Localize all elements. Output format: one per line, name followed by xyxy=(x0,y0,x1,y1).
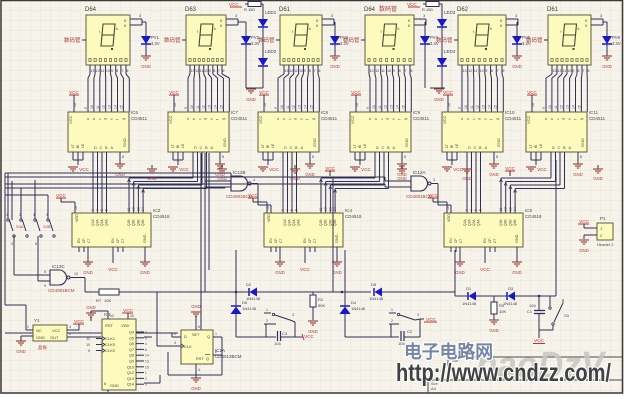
svg-text:D2: D2 xyxy=(246,282,252,287)
svg-text:BI: BI xyxy=(76,145,80,148)
svg-text:1N4148: 1N4148 xyxy=(503,301,518,306)
svg-text:6: 6 xyxy=(145,348,147,352)
svg-text:Q1A: Q1A xyxy=(463,219,467,226)
svg-text:IC13C: IC13C xyxy=(52,264,66,269)
svg-text:D: D xyxy=(184,334,187,339)
svg-text:GND: GND xyxy=(141,64,151,69)
svg-text:CD4081BCM: CD4081BCM xyxy=(406,194,433,199)
svg-text:f: f xyxy=(292,30,293,34)
svg-text:f: f xyxy=(381,30,382,34)
svg-text:Q3A: Q3A xyxy=(472,219,476,226)
svg-text:g: g xyxy=(403,118,407,120)
svg-text:4: 4 xyxy=(470,209,474,211)
svg-text:8: 8 xyxy=(404,155,406,159)
svg-text:VCC: VCC xyxy=(123,308,133,313)
svg-text:D62: D62 xyxy=(457,7,469,13)
svg-text:e: e xyxy=(484,118,488,120)
svg-text:LED2: LED2 xyxy=(265,49,277,54)
svg-text:13: 13 xyxy=(91,69,95,73)
svg-text:D: D xyxy=(94,146,97,150)
svg-text:3: 3 xyxy=(281,209,285,211)
svg-text:a: a xyxy=(460,118,464,120)
svg-text:R 150: R 150 xyxy=(422,7,433,12)
svg-text:9: 9 xyxy=(485,69,487,73)
svg-text:VCC: VCC xyxy=(52,328,61,333)
svg-text:10: 10 xyxy=(568,69,572,73)
svg-text:104: 104 xyxy=(274,341,281,346)
svg-text:VCC: VCC xyxy=(361,167,371,172)
svg-text:Q2B: Q2B xyxy=(324,219,328,226)
svg-text:C: C xyxy=(290,146,293,150)
svg-text:13: 13 xyxy=(390,105,394,109)
svg-text:VDD: VDD xyxy=(267,214,271,222)
svg-text:15: 15 xyxy=(401,105,405,109)
svg-text:b: b xyxy=(550,118,554,120)
svg-text:3: 3 xyxy=(292,313,294,317)
svg-text:2: 2 xyxy=(391,319,393,323)
svg-text:8: 8 xyxy=(491,69,493,73)
svg-text:VCC: VCC xyxy=(300,267,310,272)
svg-text:11: 11 xyxy=(294,69,298,73)
svg-text:BI: BI xyxy=(358,145,362,148)
svg-text:Q3A: Q3A xyxy=(292,219,296,226)
svg-text:VCC: VCC xyxy=(534,338,544,343)
svg-text:Q9: Q9 xyxy=(129,360,134,364)
svg-text:D: D xyxy=(194,146,197,150)
svg-text:3: 3 xyxy=(465,209,469,211)
svg-text:9: 9 xyxy=(274,107,278,109)
svg-text:7: 7 xyxy=(121,69,123,73)
svg-text:CD4518: CD4518 xyxy=(345,214,362,219)
svg-text:e: e xyxy=(300,118,304,120)
svg-text:CT: CT xyxy=(493,239,497,243)
svg-text:1: 1 xyxy=(27,325,29,329)
svg-text:Q1B: Q1B xyxy=(319,219,323,226)
svg-text:1N4148: 1N4148 xyxy=(462,301,477,306)
svg-text:8: 8 xyxy=(578,69,580,73)
svg-text:D3: D3 xyxy=(508,286,514,291)
svg-text:IC5: IC5 xyxy=(525,208,533,213)
svg-text:16: 16 xyxy=(263,103,267,107)
svg-text:IC3: IC3 xyxy=(153,208,161,213)
svg-text:c: c xyxy=(556,118,560,120)
svg-text:Q2A: Q2A xyxy=(468,219,472,226)
svg-text:GND: GND xyxy=(246,97,256,102)
svg-text:GND: GND xyxy=(191,386,201,391)
svg-text:12: 12 xyxy=(375,69,379,73)
svg-text:GND: GND xyxy=(573,172,583,177)
svg-text:VCC: VCC xyxy=(480,267,490,272)
svg-text:GND: GND xyxy=(489,172,499,177)
svg-text:4: 4 xyxy=(33,213,35,217)
svg-text:C: C xyxy=(558,146,561,150)
svg-text:3: 3 xyxy=(91,209,95,211)
svg-text:R 150: R 150 xyxy=(244,7,255,12)
svg-text:9: 9 xyxy=(44,284,46,288)
svg-text:5: 5 xyxy=(69,332,71,336)
svg-text:15: 15 xyxy=(219,105,223,109)
svg-text:14: 14 xyxy=(145,354,149,358)
svg-text:f: f xyxy=(116,119,120,120)
svg-text:6: 6 xyxy=(127,69,129,73)
svg-text:PV6: PV6 xyxy=(612,35,621,40)
svg-text:3.3V: 3.3V xyxy=(151,41,160,46)
svg-text:VCC: VCC xyxy=(259,90,269,95)
svg-text:8: 8 xyxy=(122,155,124,159)
svg-text:GND: GND xyxy=(593,176,603,181)
svg-text:CP: CP xyxy=(454,238,458,243)
svg-text:D1: D1 xyxy=(466,286,472,291)
svg-text:数码管: 数码管 xyxy=(379,5,397,13)
svg-text:10: 10 xyxy=(299,69,303,73)
svg-text:11: 11 xyxy=(127,207,131,211)
svg-text:D6: D6 xyxy=(242,300,248,305)
svg-text:16: 16 xyxy=(173,103,177,107)
svg-text:GND: GND xyxy=(330,64,340,69)
svg-text:Q14: Q14 xyxy=(127,383,134,387)
svg-text:Q7: Q7 xyxy=(129,348,134,352)
svg-text:GND: GND xyxy=(335,234,339,243)
svg-text:6: 6 xyxy=(198,325,200,329)
svg-text:GND: GND xyxy=(191,304,201,309)
svg-text:IC6: IC6 xyxy=(131,110,139,115)
svg-text:d: d xyxy=(478,118,482,120)
svg-text:LE: LE xyxy=(271,143,275,148)
svg-text:12: 12 xyxy=(289,69,293,73)
svg-text:VCC: VCC xyxy=(442,115,447,124)
svg-text:VCC: VCC xyxy=(426,317,436,322)
svg-text:数码管: 数码管 xyxy=(64,36,81,44)
svg-text:VCC: VCC xyxy=(579,219,589,224)
svg-text:11: 11 xyxy=(499,207,503,211)
svg-text:Q8: Q8 xyxy=(129,354,134,358)
svg-text:GND: GND xyxy=(512,270,522,275)
svg-text:D61: D61 xyxy=(279,7,291,13)
svg-text:Q: Q xyxy=(207,334,210,339)
svg-text:c: c xyxy=(380,118,384,120)
svg-text:9: 9 xyxy=(542,107,546,109)
svg-text:9: 9 xyxy=(573,69,575,73)
svg-text:c: c xyxy=(198,118,202,120)
svg-text:16: 16 xyxy=(447,103,451,107)
svg-text:1: 1 xyxy=(391,308,393,312)
svg-text:VCC: VCC xyxy=(258,115,263,124)
svg-text:D: D xyxy=(552,146,555,150)
svg-text:13: 13 xyxy=(298,105,302,109)
svg-text:OUT: OUT xyxy=(50,335,59,340)
svg-text:c: c xyxy=(472,118,476,120)
svg-text:9: 9 xyxy=(304,69,306,73)
svg-text:BI: BI xyxy=(176,145,180,148)
svg-text:13: 13 xyxy=(553,69,557,73)
svg-text:6: 6 xyxy=(223,69,225,73)
svg-text:e: e xyxy=(210,118,214,120)
svg-text:VCC: VCC xyxy=(68,115,73,124)
svg-text:D64: D64 xyxy=(364,7,376,13)
svg-text:3.3V: 3.3V xyxy=(612,41,621,46)
svg-text:5: 5 xyxy=(290,209,294,211)
svg-text:GND: GND xyxy=(455,270,465,275)
svg-text:9: 9 xyxy=(458,107,462,109)
svg-text:Q13: Q13 xyxy=(127,377,134,381)
svg-text:GND: GND xyxy=(580,138,585,147)
svg-text:8: 8 xyxy=(309,69,311,73)
svg-text:IC8: IC8 xyxy=(321,110,329,115)
svg-text:11: 11 xyxy=(96,105,100,109)
svg-text:5: 5 xyxy=(474,209,478,211)
svg-text:1N4148: 1N4148 xyxy=(351,306,366,311)
svg-text:b: b xyxy=(578,27,580,31)
svg-text:数码管: 数码管 xyxy=(164,36,181,44)
svg-text:10: 10 xyxy=(387,69,391,73)
svg-text:f: f xyxy=(561,30,562,34)
svg-text:Q4B: Q4B xyxy=(141,219,145,226)
svg-text:f: f xyxy=(398,119,402,120)
svg-text:晶振: 晶振 xyxy=(38,344,47,351)
svg-text:4: 4 xyxy=(96,209,100,211)
svg-text:14: 14 xyxy=(572,105,576,109)
svg-text:数码管: 数码管 xyxy=(526,36,543,44)
svg-text:13: 13 xyxy=(370,69,374,73)
svg-text:d: d xyxy=(204,118,208,120)
svg-text:12: 12 xyxy=(195,69,199,73)
svg-text:8: 8 xyxy=(213,69,215,73)
svg-text:g: g xyxy=(579,118,583,120)
svg-text:CD4511: CD4511 xyxy=(231,116,248,121)
svg-text:R7: R7 xyxy=(96,298,102,303)
svg-text:16: 16 xyxy=(130,314,134,318)
svg-text:12: 12 xyxy=(476,105,480,109)
svg-text:数码管: 数码管 xyxy=(436,36,453,44)
svg-text:10: 10 xyxy=(86,343,90,347)
svg-text:b: b xyxy=(214,27,216,31)
svg-text:a: a xyxy=(276,118,280,120)
svg-text:10: 10 xyxy=(106,69,110,73)
svg-text:VCC: VCC xyxy=(69,90,79,95)
svg-text:Q1B: Q1B xyxy=(127,219,131,226)
svg-text:11: 11 xyxy=(319,207,323,211)
svg-text:GND: GND xyxy=(332,270,342,275)
svg-text:10: 10 xyxy=(90,105,94,109)
svg-text:C: C xyxy=(382,146,385,150)
svg-text:14: 14 xyxy=(304,105,308,109)
svg-text:R5: R5 xyxy=(499,303,505,308)
svg-text:CD4081BCM: CD4081BCM xyxy=(226,194,253,199)
svg-text:6: 6 xyxy=(105,209,109,211)
svg-text:Q4A: Q4A xyxy=(297,219,301,226)
svg-text:10: 10 xyxy=(204,69,208,73)
svg-text:10: 10 xyxy=(548,105,552,109)
svg-text:50K: 50K xyxy=(318,303,325,308)
svg-text:RST: RST xyxy=(196,357,204,361)
svg-text:8: 8 xyxy=(399,69,401,73)
svg-text:9: 9 xyxy=(184,107,188,109)
svg-text:6: 6 xyxy=(295,209,299,211)
svg-text:数码管: 数码管 xyxy=(343,36,360,44)
svg-text:C: C xyxy=(474,146,477,150)
svg-text:b: b xyxy=(309,27,311,31)
svg-text:c: c xyxy=(98,118,102,120)
svg-text:GND: GND xyxy=(496,138,501,147)
svg-text:LED3: LED3 xyxy=(444,10,456,15)
svg-text:GND: GND xyxy=(305,172,315,177)
svg-text:9: 9 xyxy=(366,107,370,109)
svg-text:Q6: Q6 xyxy=(129,342,134,346)
svg-text:5: 5 xyxy=(174,332,176,336)
svg-text:15: 15 xyxy=(119,105,123,109)
svg-text:D63: D63 xyxy=(185,7,197,13)
svg-text:11: 11 xyxy=(381,69,385,73)
svg-text:GND: GND xyxy=(143,234,147,243)
svg-text:IC4: IC4 xyxy=(345,208,353,213)
svg-text:e: e xyxy=(392,118,396,120)
svg-text:7: 7 xyxy=(583,69,585,73)
svg-text:d: d xyxy=(104,118,108,120)
svg-text:10K: 10K xyxy=(499,309,506,314)
svg-text:12: 12 xyxy=(202,105,206,109)
svg-text:VDD: VDD xyxy=(447,214,451,222)
svg-text:Q2A: Q2A xyxy=(288,219,292,226)
svg-text:8: 8 xyxy=(312,155,314,159)
svg-text:7: 7 xyxy=(405,69,407,73)
svg-text:IC12B: IC12B xyxy=(233,170,246,175)
svg-text:RST: RST xyxy=(105,323,114,328)
svg-text:b: b xyxy=(192,118,196,120)
svg-text:12: 12 xyxy=(384,105,388,109)
svg-text:Q2A: Q2A xyxy=(96,219,100,226)
svg-text:8: 8 xyxy=(496,155,498,159)
svg-text:10: 10 xyxy=(190,105,194,109)
svg-text:b: b xyxy=(92,118,96,120)
svg-text:Header 2: Header 2 xyxy=(597,242,614,247)
svg-text:14: 14 xyxy=(214,105,218,109)
svg-text:2: 2 xyxy=(145,377,147,381)
svg-text:D61: D61 xyxy=(547,7,559,13)
svg-text:b: b xyxy=(374,118,378,120)
svg-text:GND: GND xyxy=(83,270,93,275)
svg-text:VCC: VCC xyxy=(351,90,361,95)
svg-text:VCC: VCC xyxy=(269,167,279,172)
svg-text:2: 2 xyxy=(19,213,21,217)
svg-text:BI: BI xyxy=(534,145,538,148)
svg-text:LED1: LED1 xyxy=(265,10,277,15)
svg-text:f: f xyxy=(306,119,310,120)
svg-text:13: 13 xyxy=(566,105,570,109)
svg-text:16: 16 xyxy=(73,103,77,107)
svg-text:Q4A: Q4A xyxy=(105,219,109,226)
svg-text:VCC: VCC xyxy=(527,90,537,95)
svg-text:CD4518: CD4518 xyxy=(525,214,542,219)
svg-text:VCC: VCC xyxy=(350,115,355,124)
svg-text:R1: R1 xyxy=(318,297,324,302)
svg-text:Q2B: Q2B xyxy=(504,219,508,226)
svg-text:PV1: PV1 xyxy=(151,35,160,40)
svg-text:1: 1 xyxy=(215,332,217,336)
svg-text:d: d xyxy=(386,118,390,120)
svg-text:3: 3 xyxy=(417,313,419,317)
svg-text:13: 13 xyxy=(463,69,467,73)
svg-text:GND: GND xyxy=(16,349,26,354)
svg-text:5: 5 xyxy=(100,209,104,211)
svg-text:14: 14 xyxy=(513,207,517,211)
svg-text:8: 8 xyxy=(44,270,46,274)
svg-text:b: b xyxy=(466,118,470,120)
svg-text:LE: LE xyxy=(81,143,85,148)
svg-text:11: 11 xyxy=(563,69,567,73)
svg-text:CLK0: CLK0 xyxy=(105,348,116,353)
svg-text:12: 12 xyxy=(292,105,296,109)
svg-text:CLK1: CLK1 xyxy=(105,336,116,341)
svg-text:CD4511: CD4511 xyxy=(505,116,522,121)
svg-text:D: D xyxy=(376,146,379,150)
svg-text:12: 12 xyxy=(558,69,562,73)
svg-text:b: b xyxy=(282,118,286,120)
svg-text:CP: CP xyxy=(274,238,278,243)
svg-text:6: 6 xyxy=(503,69,505,73)
svg-text:Q12: Q12 xyxy=(127,371,134,375)
svg-text:11: 11 xyxy=(86,337,90,341)
svg-text:GND: GND xyxy=(122,138,127,147)
svg-text:11: 11 xyxy=(286,105,290,109)
svg-text:VCC: VCC xyxy=(74,319,84,324)
svg-text:Q1B: Q1B xyxy=(499,219,503,226)
svg-text:C2: C2 xyxy=(407,329,413,334)
svg-text:g: g xyxy=(495,118,499,120)
svg-text:g: g xyxy=(221,118,225,120)
svg-text:a: a xyxy=(186,118,190,120)
svg-text:GND: GND xyxy=(308,329,318,334)
svg-text:9: 9 xyxy=(111,69,113,73)
svg-text:11: 11 xyxy=(474,69,478,73)
svg-text:VCC: VCC xyxy=(179,167,189,172)
svg-text:GND: GND xyxy=(602,64,612,69)
svg-text:f: f xyxy=(99,30,100,34)
svg-text:13: 13 xyxy=(482,105,486,109)
svg-text:VCC: VCC xyxy=(168,115,173,124)
svg-text:Q3A: Q3A xyxy=(100,219,104,226)
svg-text:C3: C3 xyxy=(282,331,288,336)
svg-text:f: f xyxy=(216,119,220,120)
svg-text:EN: EN xyxy=(303,238,307,243)
svg-text:D8: D8 xyxy=(371,282,377,287)
svg-text:VDD: VDD xyxy=(75,214,79,222)
svg-text:K: K xyxy=(124,23,127,28)
svg-text:6: 6 xyxy=(588,69,590,73)
svg-text:Q3B: Q3B xyxy=(508,219,512,226)
svg-text:D: D xyxy=(284,146,287,150)
svg-text:4: 4 xyxy=(198,368,200,372)
svg-text:CT: CT xyxy=(121,239,125,243)
svg-text:14: 14 xyxy=(396,105,400,109)
svg-text:8: 8 xyxy=(104,382,106,386)
svg-text:LE: LE xyxy=(455,143,459,148)
svg-text:b: b xyxy=(398,27,400,31)
svg-text:14: 14 xyxy=(333,207,337,211)
svg-text:SET: SET xyxy=(192,333,200,337)
svg-text:4: 4 xyxy=(286,209,290,211)
svg-text:3: 3 xyxy=(11,242,13,246)
svg-text:10: 10 xyxy=(74,272,78,276)
svg-text:e: e xyxy=(568,118,572,120)
svg-text:GND: GND xyxy=(462,176,472,181)
svg-text:11: 11 xyxy=(101,69,105,73)
svg-text:11: 11 xyxy=(378,105,382,109)
svg-text:GND: GND xyxy=(86,305,96,310)
svg-text:15: 15 xyxy=(493,105,497,109)
svg-text:Q3B: Q3B xyxy=(328,219,332,226)
svg-text:12: 12 xyxy=(102,105,106,109)
svg-text:9: 9 xyxy=(88,349,90,353)
